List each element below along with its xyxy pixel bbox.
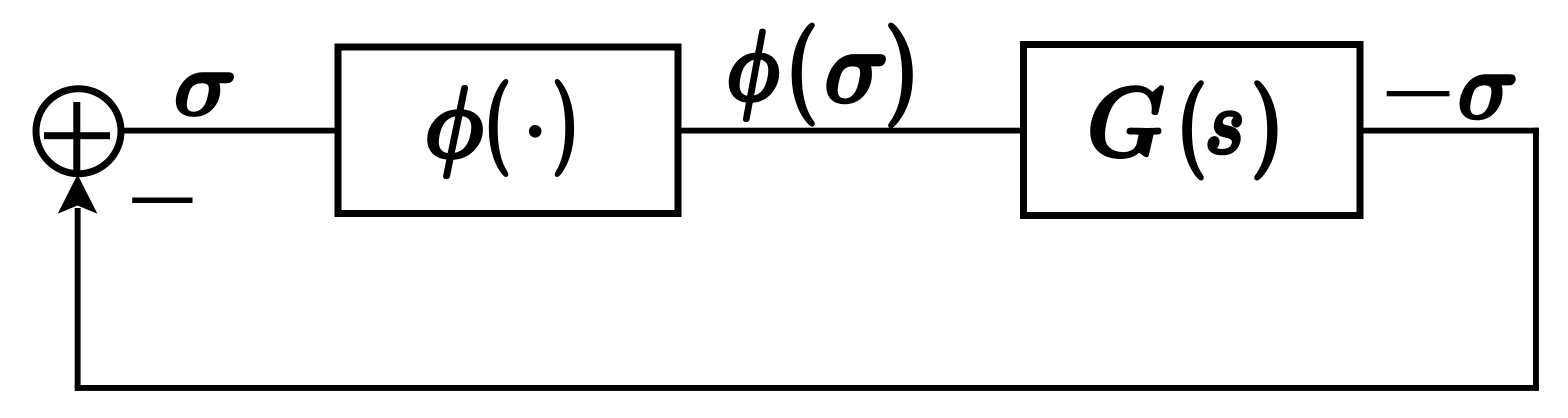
node sigma: error signal label: [177, 73, 233, 116]
block G(s) label: G glyph: [1091, 86, 1163, 158]
wire phi(sigma): phi block to G block: [678, 128, 1024, 134]
block U1 label: center dot: [529, 125, 542, 138]
plus sign horizontal: [44, 132, 110, 139]
wire sigma: junction to phi block: [121, 128, 341, 134]
node -sigma label: sigma glyph: [1460, 75, 1514, 119]
node phi(sigma) label: right paren: [890, 24, 912, 127]
summing junction circle: [36, 89, 121, 174]
plus sign vertical: [73, 102, 80, 171]
block U1 label: phi glyph: [429, 86, 482, 177]
block G2 label: s glyph: [1209, 112, 1241, 154]
feedback wire left vertical: [75, 208, 81, 388]
arrowhead into junction: [58, 175, 98, 214]
node -sigma label: minus: [1387, 91, 1450, 96]
feedback wire bottom horizontal: [75, 385, 1539, 391]
output wire from G block: [1364, 128, 1539, 134]
feedback wire right vertical: [1533, 128, 1539, 391]
node phi(sigma) label: phi glyph: [730, 30, 777, 120]
node phi(sigma) label: sigma glyph: [827, 55, 885, 103]
block U1 label: left paren: [490, 80, 507, 175]
block U1 label: right paren: [556, 80, 572, 175]
block G2 label: left paren: [1184, 82, 1202, 179]
block U1: nonlinearity phi(.): [338, 47, 678, 214]
block G2: linear plant G(s): [1024, 45, 1361, 216]
minus label below junction: [132, 198, 192, 204]
block G2 label: right paren: [1256, 82, 1276, 179]
node phi(sigma) label: left paren: [793, 24, 813, 125]
